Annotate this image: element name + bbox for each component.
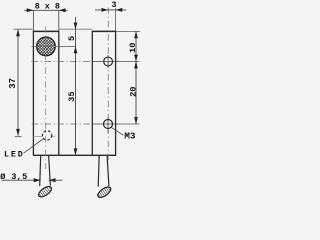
- hole 2 axis dash-dot across views: [32, 123, 93, 125]
- front view cable left edge: [40, 155, 41, 186]
- coil axis extension to 5-dimension: [59, 45, 76, 47]
- dimension 8x8 line: [24, 9, 67, 11]
- svg-text:M3: M3: [124, 130, 136, 141]
- dimension 8x8 left arrow: [27, 8, 34, 12]
- svg-text:3: 3: [112, 1, 117, 10]
- svg-text:5: 5: [67, 36, 77, 41]
- active face reference line across gap: [59, 28, 93, 30]
- dimension 10 top arrow: [134, 31, 138, 38]
- hole 1 axis dash-dot across views: [32, 61, 94, 63]
- side view body right edge: [115, 31, 117, 155]
- dimension 35 bottom arrow: [74, 148, 78, 155]
- mounting hole 2: [104, 120, 113, 129]
- dimension 5/35 line: [75, 17, 77, 155]
- coil axis horizontal dash-dot: [32, 45, 59, 47]
- dimension 8x8 right arrow: [59, 8, 66, 12]
- common bottom edge line: [33, 154, 116, 156]
- M3 leader line: [111, 127, 123, 135]
- side view body left edge: [91, 31, 93, 155]
- dimension 20 top arrow: [134, 62, 138, 69]
- side view cable end: [96, 185, 113, 200]
- dimension 10 line: [135, 31, 137, 61]
- dimension 10 bottom arrow: [134, 55, 138, 62]
- dimension 3 extension (right edge up): [115, 8, 117, 31]
- svg-text:35: 35: [67, 91, 77, 101]
- svg-text:37: 37: [8, 78, 18, 89]
- dimension 3 line: [95, 9, 126, 11]
- dimension 37 bottom arrow: [16, 129, 20, 136]
- coil circle: [37, 37, 56, 56]
- front view cap separation line: [33, 135, 42, 137]
- svg-text:8 x 8: 8 x 8: [35, 1, 60, 11]
- side view top edge: [92, 30, 116, 32]
- extension line right of 8x8: [58, 10, 60, 31]
- dimension 37 top arrow: [16, 29, 20, 36]
- front view body right edge: [58, 31, 60, 155]
- dimension 5 bottom arrow: [74, 46, 78, 53]
- hole axis vertical dash-dot: [107, 8, 109, 162]
- dimension 5 top arrow: [74, 23, 78, 30]
- dimension 37 bottom tick: [15, 136, 22, 138]
- side view cable left edge: [98, 155, 99, 186]
- svg-text:LED: LED: [4, 150, 25, 159]
- extension line left of 8x8: [32, 10, 34, 31]
- dimension 3 right arrow: [116, 8, 123, 12]
- coil crosshatch: [26, 0, 68, 92]
- dimension 37 line: [17, 29, 19, 136]
- side view cable right edge: [107, 155, 109, 186]
- front view body left edge: [32, 31, 34, 155]
- dimension 3 left arrow: [102, 8, 109, 12]
- dimension 20 bottom arrow: [134, 117, 138, 124]
- cable diameter right arrow: [49, 178, 56, 182]
- LED leader line: [24, 138, 44, 153]
- dimension 37 top extension: [14, 28, 33, 30]
- front view vertical centerline: [45, 26, 47, 169]
- svg-text:10: 10: [128, 43, 138, 53]
- cable diameter left arrow: [34, 178, 41, 182]
- side view top edge extension for 10: [116, 30, 140, 32]
- front view cable end: [37, 184, 54, 199]
- LED hidden circle: [42, 131, 51, 140]
- svg-text:20: 20: [128, 86, 138, 96]
- front view top edge / active face line: [33, 30, 59, 32]
- cable diameter dimension line: [2, 179, 41, 181]
- mounting hole 1: [104, 57, 113, 66]
- dimension 20 line: [135, 62, 137, 125]
- front view cable right edge: [49, 155, 51, 185]
